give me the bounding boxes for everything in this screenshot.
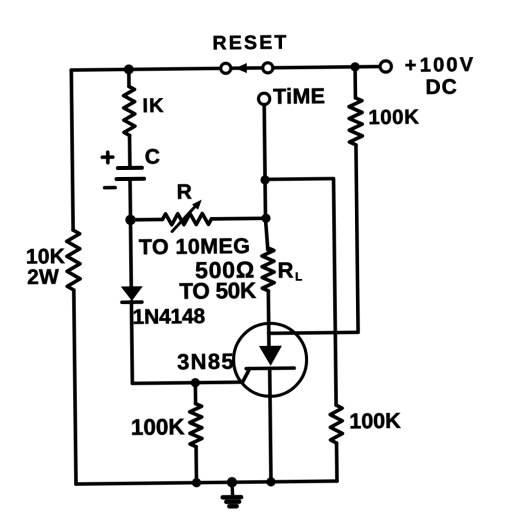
svg-text:R: R xyxy=(177,181,192,204)
svg-text:TiME: TiME xyxy=(273,84,325,109)
svg-text:IK: IK xyxy=(142,95,164,117)
svg-text:1N4148: 1N4148 xyxy=(132,305,205,329)
svg-text:100K: 100K xyxy=(131,414,186,440)
svg-text:C: C xyxy=(145,146,160,169)
svg-text:100K: 100K xyxy=(349,409,401,434)
svg-text:3N85: 3N85 xyxy=(177,349,235,375)
svg-text:100V: 100V xyxy=(420,54,476,77)
svg-text:L: L xyxy=(295,271,302,283)
svg-text:TO 10MEG: TO 10MEG xyxy=(139,234,251,259)
svg-text:100K: 100K xyxy=(368,106,419,130)
svg-text:+: + xyxy=(405,55,417,77)
svg-text:2W: 2W xyxy=(27,266,59,289)
svg-text:RESET: RESET xyxy=(212,32,288,55)
svg-text:R: R xyxy=(277,258,293,283)
svg-text:TO 50K: TO 50K xyxy=(179,278,257,304)
svg-text:DC: DC xyxy=(425,76,458,99)
